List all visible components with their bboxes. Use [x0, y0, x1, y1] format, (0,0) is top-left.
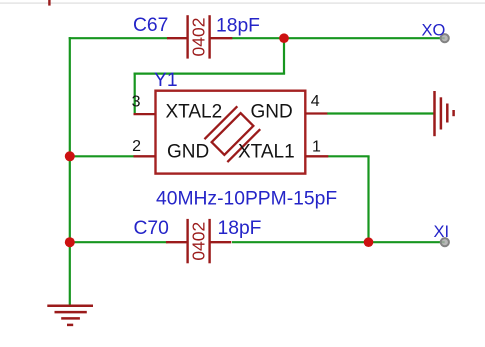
- capacitor C70: [166, 219, 231, 263]
- svg-text:GND: GND: [167, 142, 209, 163]
- junction XI node: [364, 237, 374, 247]
- svg-text:4: 4: [311, 93, 320, 110]
- svg-text:GND: GND: [251, 102, 293, 123]
- svg-text:40MHz-10PPM-15pF: 40MHz-10PPM-15pF: [156, 189, 337, 210]
- svg-text:0402: 0402: [188, 18, 208, 57]
- wire pin4 to right ground: [327, 112, 434, 114]
- capacitor C67: [167, 15, 232, 58]
- wire top horizontal to C67 left: [69, 37, 168, 39]
- svg-text:XTAL1: XTAL1: [238, 142, 295, 163]
- ground symbol bottom: [47, 306, 93, 325]
- port XI: [441, 238, 449, 246]
- wire pin1 to corner: [328, 155, 370, 157]
- wire corner down to XI node: [367, 156, 369, 242]
- svg-text:Y1: Y1: [154, 70, 178, 91]
- svg-text:3: 3: [132, 94, 141, 111]
- top window edge line: [0, 2, 485, 3]
- wire junction to pin2: [70, 155, 134, 157]
- svg-text:1: 1: [312, 139, 321, 156]
- wire bottom horizontal to C70 left: [70, 241, 168, 243]
- pin 2 stub: [134, 155, 156, 157]
- svg-text:XO: XO: [422, 21, 446, 39]
- wire C70 right to XI port: [232, 241, 445, 243]
- crystal Y1 body: [134, 91, 329, 174]
- svg-text:2: 2: [132, 138, 141, 155]
- svg-text:C70: C70: [134, 218, 169, 239]
- pin 1 stub: [305, 155, 328, 157]
- wire left vertical (node XI to ground): [69, 37, 71, 306]
- crystal symbol glyph: [204, 106, 260, 162]
- junction XO node: [279, 33, 289, 43]
- wire horizontal to pin3 column: [134, 72, 286, 74]
- svg-text:18pF: 18pF: [218, 218, 262, 239]
- pin 3 stub: [134, 113, 156, 115]
- svg-text:0402: 0402: [188, 222, 208, 261]
- svg-text:XI: XI: [434, 223, 450, 241]
- svg-text:18pF: 18pF: [216, 16, 260, 37]
- wire C67 right to XO port: [232, 37, 445, 39]
- port XO: [441, 34, 449, 42]
- svg-text:XTAL2: XTAL2: [166, 102, 223, 123]
- wire XO node vertical drop: [283, 38, 285, 73]
- clipped red tick top edge: [48, 0, 50, 6]
- pin 4 stub: [305, 112, 327, 114]
- junction bottom left node: [65, 237, 75, 247]
- svg-text:C67: C67: [133, 15, 168, 36]
- junction pin2 node: [65, 151, 75, 161]
- wire vertical down to pin3: [134, 73, 136, 115]
- ground symbol right (rotated): [435, 91, 454, 136]
